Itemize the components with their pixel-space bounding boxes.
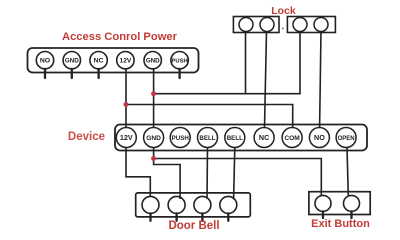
- wire: lock L1 terminal 2 to U1 NC: [265, 31, 267, 128]
- door bell terminal 1: [142, 196, 159, 220]
- exit button terminal 2: [344, 195, 360, 218]
- door bell terminal 2: [168, 196, 185, 220]
- svg-text:Exit Button: Exit Button: [311, 218, 370, 230]
- svg-text:Lock: Lock: [271, 5, 296, 17]
- wire: U1 BELL1 to door bell terminal 3: [206, 147, 209, 199]
- terminal PS1 GND (left): [63, 52, 80, 79]
- svg-text:OPEN: OPEN: [338, 136, 355, 142]
- svg-text:Access Conrol Power: Access Conrol Power: [62, 31, 178, 43]
- terminal U1 OPEN: [336, 128, 356, 148]
- svg-text:12V: 12V: [120, 57, 132, 64]
- wire: GND bus to exit button terminal 1: [154, 159, 322, 197]
- svg-text:NC: NC: [259, 133, 269, 142]
- svg-text:BELL: BELL: [199, 135, 215, 142]
- door bell terminal 3: [194, 196, 211, 220]
- lock L1 terminal 1: [239, 18, 253, 32]
- wire: U1 OPEN to exit button terminal 2: [347, 147, 348, 196]
- terminal U1 12V: [116, 128, 136, 148]
- terminal U1 BELL (2): [225, 128, 245, 148]
- svg-text:NO: NO: [40, 57, 50, 64]
- terminal PS1 12V: [117, 52, 134, 69]
- lock L1 terminal 2: [260, 18, 274, 32]
- svg-text:GND: GND: [146, 135, 161, 142]
- terminal PS1 PUSH: [171, 52, 188, 79]
- terminal PS1 NC: [90, 52, 107, 79]
- door bell terminal 4: [220, 196, 237, 220]
- wire: lock L2 terminal 2 to U1 NO: [320, 31, 321, 128]
- wire: PS1 12V down to U1 12V: [125, 68, 127, 128]
- svg-text:GND: GND: [146, 57, 160, 64]
- terminal U1 COM: [282, 128, 302, 148]
- exit button SW1 box: [309, 192, 370, 215]
- wire: lock L1 terminal 1 to GND bus: [245, 31, 247, 94]
- junction: 12V bus at PS1 12V drop: [124, 102, 129, 107]
- speck between lock boxes: [282, 28, 284, 30]
- junction: U1 GND branch: [151, 156, 156, 161]
- svg-text:GND: GND: [65, 57, 79, 64]
- terminal PS1 NO: [36, 52, 53, 79]
- device U1 box: [115, 125, 367, 151]
- svg-text:NC: NC: [94, 57, 104, 64]
- lock L2 terminal 2: [314, 18, 328, 32]
- lock L1 box (left): [233, 17, 279, 33]
- power supply PS1 box: [28, 48, 199, 73]
- terminal U1 NC: [254, 128, 274, 148]
- terminal U1 BELL (1): [198, 128, 218, 148]
- wire: 12V bus to U1 COM: [126, 105, 293, 128]
- svg-text:COM: COM: [284, 135, 300, 142]
- svg-text:BELL: BELL: [227, 135, 243, 142]
- exit button terminal 1: [315, 195, 331, 218]
- wire: U1 12V to door bell terminal 1: [126, 147, 150, 197]
- wire: U1 GND down to step: [154, 147, 181, 199]
- svg-text:NO: NO: [314, 133, 325, 142]
- lock L2 box (right): [287, 17, 335, 33]
- svg-text:12V: 12V: [120, 133, 133, 142]
- terminal U1 PUSH: [170, 128, 190, 148]
- svg-text:PUSH: PUSH: [172, 58, 188, 64]
- svg-text:Device: Device: [68, 131, 105, 143]
- wire: U1 BELL2 to door bell terminal 4: [234, 147, 235, 199]
- svg-text:Door Bell: Door Bell: [168, 220, 219, 232]
- terminal PS1 GND (right): [144, 52, 161, 69]
- door bell DB1 box: [136, 193, 251, 217]
- junction: GND bus at PS1 GND drop: [151, 91, 156, 96]
- terminal U1 GND: [144, 128, 164, 148]
- svg-text:PUSH: PUSH: [172, 135, 190, 142]
- wire: PS1 GND down to U1 GND: [153, 68, 155, 128]
- lock L2 terminal 1: [293, 18, 307, 32]
- terminal U1 NO: [309, 128, 329, 148]
- wire: GND bus to lock L2 terminal 1: [154, 31, 300, 94]
